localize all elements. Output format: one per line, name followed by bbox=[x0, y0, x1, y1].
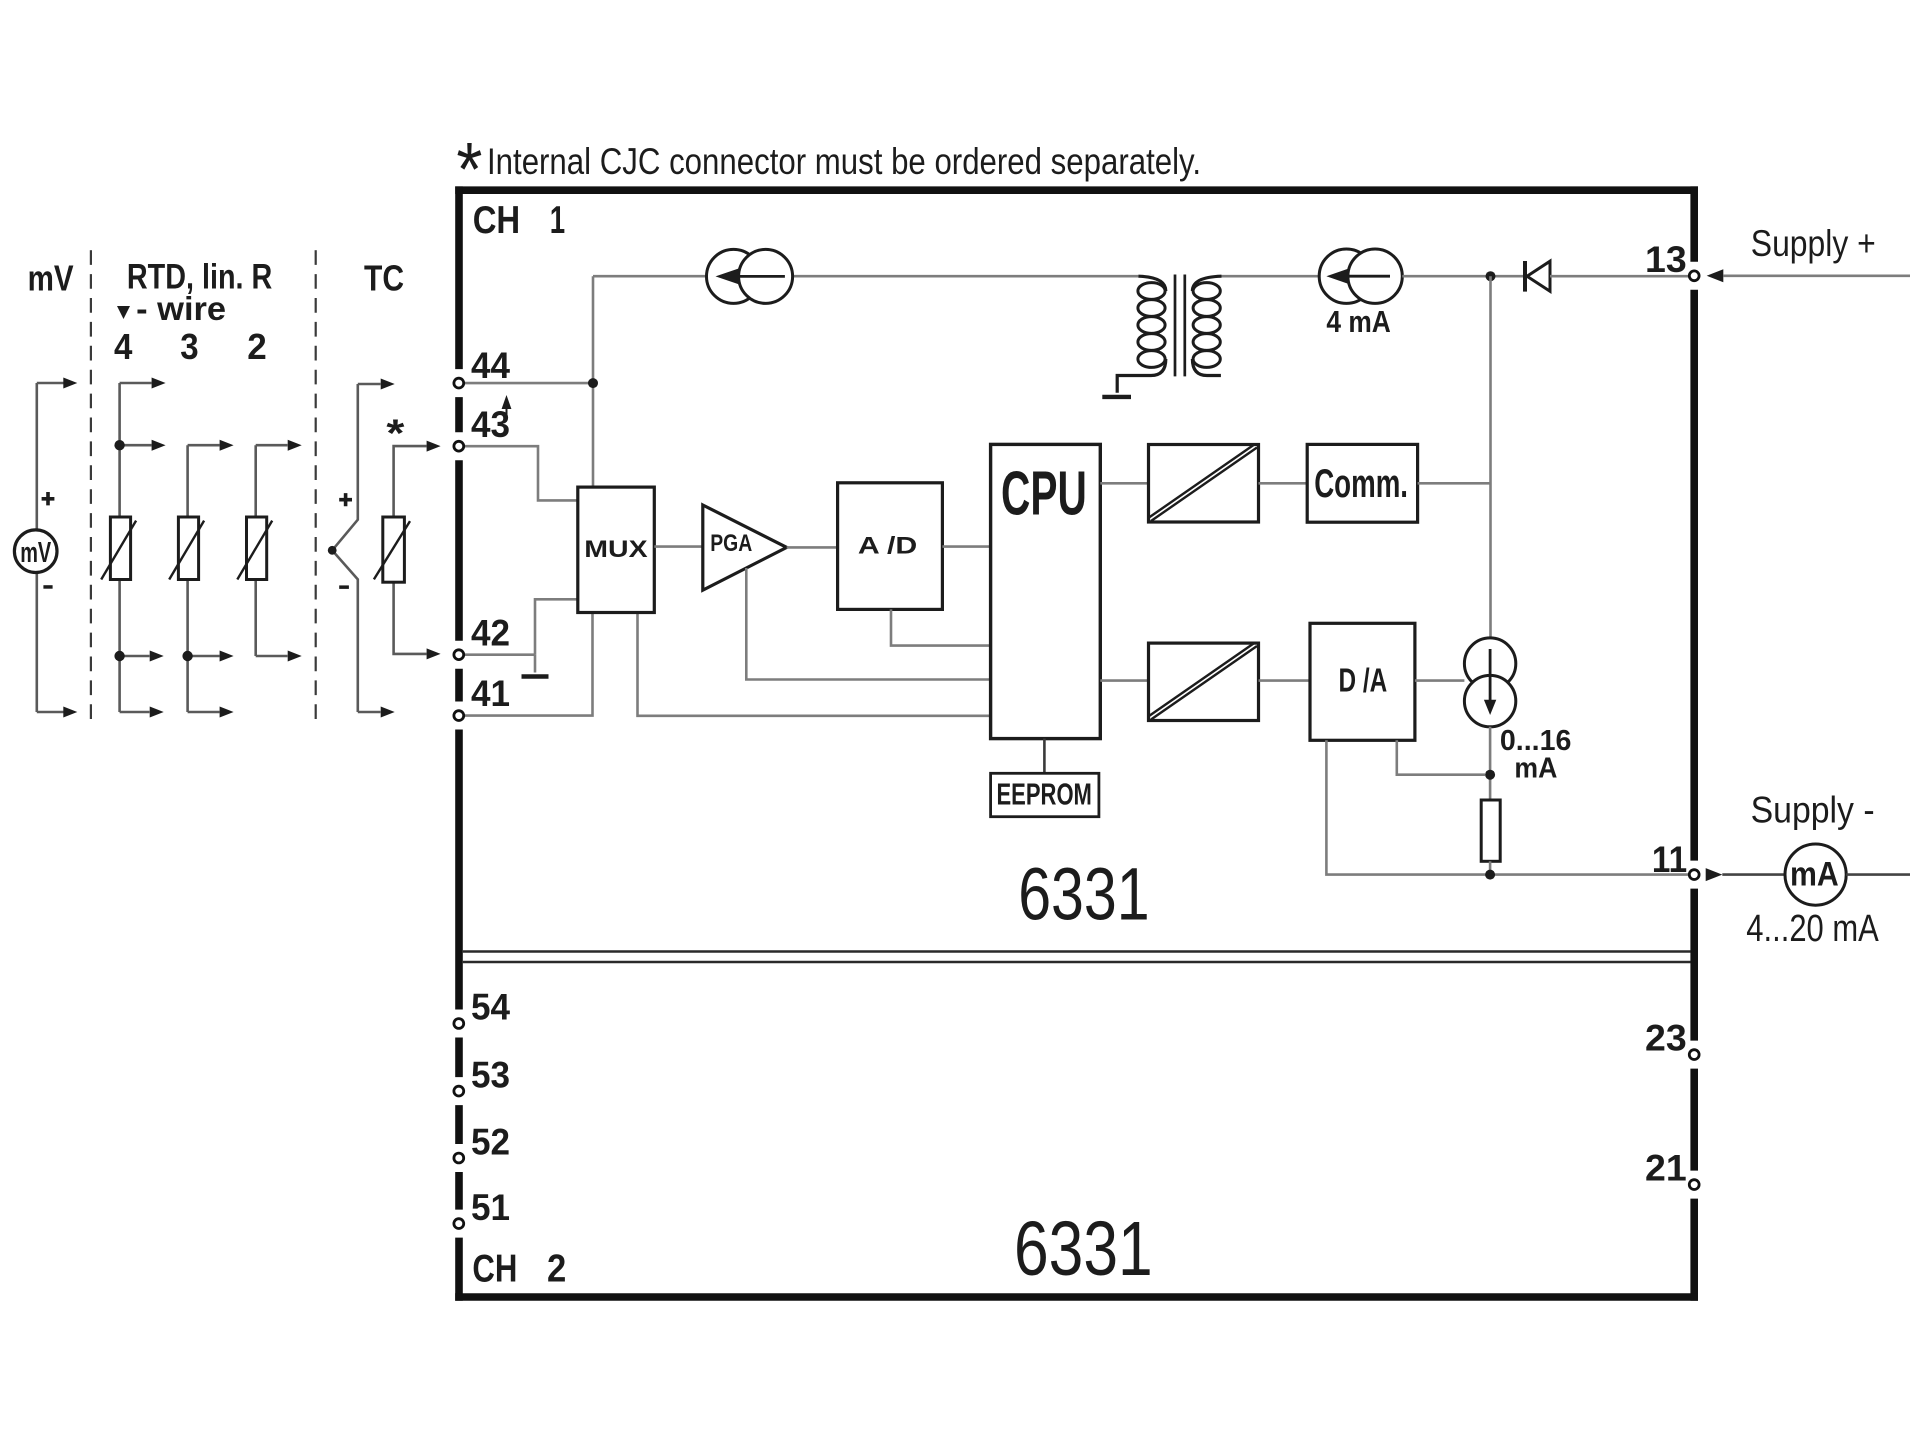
mV plus sign bbox=[42, 492, 55, 505]
thermocouple TC wires bbox=[332, 384, 380, 712]
wire terminal 44 to node A bbox=[465, 382, 594, 385]
TC junction dot bbox=[328, 546, 337, 555]
RTD 4-wire column wire bbox=[120, 383, 152, 712]
terminal 53 bbox=[454, 1086, 464, 1096]
CJC arrows to 43 and 42 bbox=[427, 441, 441, 660]
wire CPU to isolation 1 bbox=[1100, 482, 1148, 485]
svg-text:- wire: - wire bbox=[136, 290, 226, 327]
svg-text:mA: mA bbox=[1514, 753, 1557, 785]
svg-text:mV: mV bbox=[20, 537, 51, 569]
wire D/A to CS3 bbox=[1415, 679, 1465, 682]
note text: Internal CJC connector note bbox=[456, 128, 1201, 213]
CJC resistor bbox=[383, 517, 405, 582]
channel separator double line bbox=[463, 952, 1691, 963]
small down arrow before wire label bbox=[117, 306, 130, 319]
wire transformer secondary to CS2 bbox=[1222, 275, 1320, 278]
svg-text:42: 42 bbox=[471, 613, 510, 654]
svg-text:Supply -: Supply - bbox=[1751, 790, 1875, 831]
junction node A bbox=[588, 378, 598, 388]
enclosure border right (gaps at terminals 13,11,23,21) bbox=[1690, 186, 1698, 1300]
transformer T1 bbox=[1117, 275, 1221, 393]
svg-text:mV: mV bbox=[28, 258, 74, 299]
svg-text:43: 43 bbox=[471, 404, 510, 445]
wire isolation 1 to Comm bbox=[1259, 482, 1308, 485]
A/D block bbox=[838, 483, 943, 610]
terminal 42 bbox=[454, 650, 464, 660]
junction node C bbox=[1485, 770, 1495, 780]
wire terminal 41 to MUX bottom pin bbox=[465, 613, 593, 716]
svg-text:51: 51 bbox=[471, 1187, 510, 1228]
terminal 11 bbox=[1689, 870, 1699, 880]
supply plus wire bbox=[1723, 274, 1910, 277]
svg-text:D /A: D /A bbox=[1339, 662, 1388, 699]
svg-text:53: 53 bbox=[471, 1055, 510, 1096]
enclosure border left (gaps at terminals 44,43,42,41,54,53,52,51) bbox=[455, 186, 463, 1300]
CJC sensor wires bbox=[394, 446, 427, 654]
RTD 3-wire junction dot bbox=[182, 651, 192, 661]
terminal 52 bbox=[454, 1153, 464, 1163]
wire terminal 43 to MUX upper input bbox=[465, 446, 578, 500]
svg-text:CH: CH bbox=[472, 1248, 517, 1291]
svg-text:*: * bbox=[386, 413, 405, 456]
supply minus wire to meter bbox=[1722, 873, 1785, 876]
wire terminal 42 to MUX lower input bbox=[465, 599, 578, 654]
svg-text:EEPROM: EEPROM bbox=[997, 777, 1092, 812]
svg-text:41: 41 bbox=[471, 673, 510, 714]
wire PGA feedback to CPU bbox=[746, 568, 990, 680]
mV source wires bbox=[37, 383, 64, 712]
mV source bottom arrow to 41 bbox=[63, 707, 77, 718]
wire D/A right pin to node C bbox=[1397, 740, 1485, 774]
mV source top arrow to 44 bbox=[63, 378, 77, 389]
terminal 23 bbox=[1689, 1050, 1699, 1060]
primary coil bbox=[1138, 276, 1165, 291]
D/A block bbox=[1310, 623, 1415, 740]
svg-text:MUX: MUX bbox=[584, 536, 647, 563]
wire terminal 42 to internal ground bbox=[534, 655, 537, 673]
junction node D bbox=[1485, 870, 1495, 880]
RTD 2-wire arrows bbox=[288, 440, 302, 662]
svg-text:6331: 6331 bbox=[1018, 853, 1149, 936]
wire CPU to EEPROM bbox=[1043, 739, 1046, 774]
svg-text:44: 44 bbox=[471, 345, 510, 386]
svg-text:2: 2 bbox=[247, 326, 267, 367]
enclosure border bottom bbox=[455, 1293, 1698, 1301]
transformer core bbox=[1175, 275, 1185, 377]
terminal 51 bbox=[454, 1219, 464, 1229]
svg-text:52: 52 bbox=[471, 1122, 510, 1163]
svg-text:4...20 mA: 4...20 mA bbox=[1746, 908, 1879, 950]
RTD 3-wire arrows bbox=[220, 440, 234, 718]
svg-text:23: 23 bbox=[1645, 1018, 1687, 1059]
small tick above terminal 43 label bbox=[503, 398, 510, 420]
wire MUX to PGA bbox=[654, 545, 703, 548]
svg-text:2: 2 bbox=[547, 1248, 566, 1291]
supply minus arrow out of terminal 11 bbox=[1706, 868, 1723, 881]
RTD resistor 3-wire bbox=[178, 517, 198, 580]
label CH 1 bbox=[473, 199, 566, 242]
svg-text:Internal CJC connector must be: Internal CJC connector must be ordered s… bbox=[487, 141, 1201, 182]
terminal 41 bbox=[454, 711, 464, 721]
supply plus arrow into terminal 13 bbox=[1707, 269, 1724, 282]
terminal 44 bbox=[454, 378, 464, 388]
wire CS2 to node B bbox=[1402, 275, 1523, 278]
RTD resistor 2-wire bbox=[247, 517, 267, 580]
terminal 21 bbox=[1689, 1180, 1699, 1190]
wire D/A left pin to terminal 11 bbox=[1326, 740, 1690, 874]
wire isolation 2 to D/A bbox=[1259, 679, 1311, 682]
svg-text:CPU: CPU bbox=[1001, 460, 1087, 529]
sensor separator dashed line 2 bbox=[315, 250, 317, 719]
RTD 3-wire column wire bbox=[188, 445, 220, 712]
wire A/D to CPU bbox=[942, 545, 990, 548]
RTD 2-wire column wire bbox=[256, 445, 288, 656]
terminal 54 bbox=[454, 1019, 464, 1029]
op-amp PGA bbox=[703, 505, 787, 590]
sensor separator dashed line 1 bbox=[90, 250, 92, 719]
internal ground bar bbox=[522, 674, 549, 678]
svg-text:3: 3 bbox=[180, 326, 198, 367]
svg-text:A /D: A /D bbox=[858, 532, 917, 559]
current source CS1 (loop supply) bbox=[707, 249, 793, 303]
MUX block bbox=[578, 487, 655, 612]
svg-text:54: 54 bbox=[471, 987, 510, 1028]
label CH 2 bbox=[472, 1248, 566, 1291]
secondary coil bbox=[1192, 276, 1221, 291]
wire CS1 to transformer primary bbox=[792, 275, 1138, 278]
svg-text:CH: CH bbox=[473, 199, 521, 242]
svg-text:21: 21 bbox=[1645, 1148, 1687, 1189]
wire node A vertical: loop line down to MUX top bbox=[592, 276, 595, 487]
svg-text:11: 11 bbox=[1652, 839, 1687, 880]
isolation barrier 2 bbox=[1149, 643, 1259, 721]
svg-text:mA: mA bbox=[1790, 856, 1839, 894]
svg-text:PGA: PGA bbox=[710, 530, 752, 557]
svg-text:4: 4 bbox=[114, 326, 132, 367]
supply rail vertical from node B bbox=[1489, 276, 1492, 638]
RTD 4-wire arrows bbox=[150, 378, 166, 718]
diode D1 bbox=[1525, 261, 1550, 292]
wire MUX bottom pin 2 to CPU bbox=[638, 613, 991, 716]
svg-text:Comm.: Comm. bbox=[1314, 462, 1408, 506]
RTD resistor 4-wire bbox=[110, 517, 130, 580]
current source CS3 output 0...16 mA bbox=[1464, 638, 1515, 727]
wire resistor to node D bbox=[1489, 861, 1492, 874]
wire CS3 down to node C bbox=[1489, 727, 1492, 800]
enclosure border top bbox=[455, 186, 1698, 194]
TC minus sign bbox=[339, 585, 349, 589]
wire A/D bottom to CPU bbox=[891, 609, 991, 645]
supply minus wire from meter bbox=[1846, 873, 1910, 876]
wire PGA to A/D bbox=[787, 546, 838, 549]
svg-text:4 mA: 4 mA bbox=[1326, 304, 1390, 339]
svg-text:Supply +: Supply + bbox=[1751, 223, 1876, 264]
isolation barrier 1 bbox=[1149, 444, 1259, 522]
junction node B bbox=[1486, 271, 1496, 281]
mV source circle bbox=[14, 530, 57, 573]
terminal 13 bbox=[1689, 271, 1699, 281]
EEPROM block bbox=[991, 773, 1099, 816]
wire current source CS1 left bbox=[593, 275, 707, 278]
wire diode to terminal 13 bbox=[1550, 275, 1690, 278]
ammeter mA bbox=[1785, 844, 1846, 905]
Comm block bbox=[1307, 444, 1417, 522]
CPU block bbox=[991, 444, 1101, 738]
svg-text:13: 13 bbox=[1645, 239, 1687, 280]
RTD 4-wire junction dots bbox=[114, 440, 124, 450]
wire Comm to supply rail bbox=[1418, 482, 1491, 485]
label 0...16 mA bbox=[1500, 725, 1572, 785]
mV minus sign bbox=[43, 585, 52, 589]
svg-text:TC: TC bbox=[364, 258, 404, 299]
TC plus sign bbox=[339, 493, 352, 506]
current source CS2 4 mA bbox=[1319, 249, 1402, 303]
TC arrows bbox=[381, 379, 395, 718]
svg-text:1: 1 bbox=[550, 199, 565, 242]
resistor R1 (current sense) bbox=[1481, 800, 1500, 861]
wire CPU to isolation 2 bbox=[1100, 679, 1148, 682]
svg-text:6331: 6331 bbox=[1014, 1206, 1153, 1292]
terminal 43 bbox=[454, 441, 464, 451]
